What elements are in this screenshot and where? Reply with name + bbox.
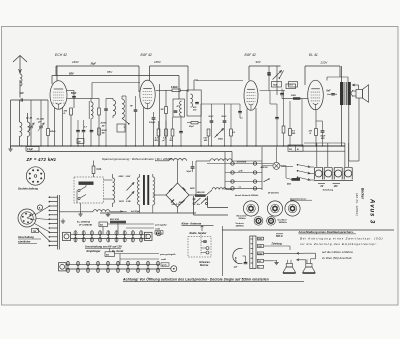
component box 0.1uF (26, 147, 39, 152)
svg-text:ECH 42: ECH 42 (55, 53, 67, 57)
wire box to strip1 (98, 221, 100, 223)
resistor 46 ohm (292, 178, 301, 181)
svg-text:kHz: kHz (193, 110, 197, 112)
svg-text:Empfänger: Empfänger (87, 249, 102, 253)
resistor 20k (47, 129, 50, 136)
capacitor 0.1uF right (275, 117, 279, 118)
fuse 0.8A (92, 166, 95, 174)
svg-text:6.8kΩ: 6.8kΩ (171, 86, 178, 89)
svg-text:Sockelschaltung: Sockelschaltung (18, 188, 38, 191)
resistor left EL41 (289, 129, 292, 136)
svg-text:0.1µF: 0.1µF (27, 149, 34, 151)
resistor 0.47M (207, 129, 210, 136)
volume pot upper 0.5M (276, 66, 278, 95)
wire secondary to bridge (153, 194, 166, 196)
svg-text:2: 2 (64, 103, 65, 105)
svg-text:1µF: 1µF (234, 266, 238, 268)
svg-text:1M: 1M (78, 142, 81, 144)
wire stage1 to stage2 grid (92, 82, 140, 84)
svg-text:ist die Zuleitung des Empfänge: ist die Zuleitung des Empfängerlautspr. (300, 242, 378, 246)
svg-text:grün: grün (162, 264, 167, 267)
svg-text:B+ Gerät: B+ Gerät (112, 249, 123, 253)
svg-text:weiß: weiß (155, 228, 161, 230)
wire antenna to input (11, 99, 49, 101)
separator line speaker block (222, 229, 394, 231)
svg-text:5Ω: 5Ω (289, 149, 292, 151)
capacitor on riser (267, 72, 271, 73)
jack socket arc (233, 249, 240, 264)
svg-text:25V: 25V (320, 138, 325, 140)
output transformer (340, 82, 343, 105)
IF transformer 1 coil (91, 102, 93, 119)
grid cap stage3 (238, 111, 242, 112)
lamp arrows right (297, 165, 310, 168)
wire screen EL41 (301, 99, 303, 147)
svg-text:0.8A: 0.8A (97, 169, 102, 171)
heater coil (206, 190, 213, 196)
socket capacitor (203, 240, 207, 241)
switch small circle A (37, 205, 42, 210)
resistor 6 ohm box (99, 222, 108, 227)
svg-text:1M: 1M (161, 109, 164, 111)
chassis bus (11, 145, 346, 147)
svg-text:sämtlicher: sämtlicher (18, 241, 32, 244)
box wave switch (117, 124, 125, 132)
box TA (272, 82, 282, 88)
riser tube1 anode (56, 66, 58, 81)
svg-text:Oszillator: Oszillator (278, 218, 288, 221)
wire socket column vertical a (193, 196, 195, 215)
svg-text:6nF: 6nF (20, 92, 25, 95)
resistor right2 stage3 (282, 126, 285, 133)
trimmer Ratiomitte (243, 201, 258, 216)
svg-text:10a: 10a (197, 204, 200, 206)
svg-text:EL 41: EL 41 (309, 53, 318, 57)
switch contact stage2 (122, 118, 129, 123)
svg-text:ANTENNE: ANTENNE (236, 162, 247, 164)
socket dashed box (188, 237, 211, 258)
capacitor 25pF stage2 (179, 131, 183, 132)
resistor right stage3 (230, 129, 233, 136)
strip1 screw right (156, 231, 161, 236)
svg-text:240V: 240V (71, 60, 80, 64)
svg-text:Umschaltung: Umschaltung (18, 236, 34, 239)
socket circles (206, 247, 209, 250)
svg-text:1400kHz: 1400kHz (279, 221, 288, 224)
svg-text:220V: 220V (118, 176, 125, 178)
svg-text:ZF 472 kHz: ZF 472 kHz (267, 192, 280, 195)
svg-text:15..43: 15..43 (26, 117, 33, 120)
trimmer mid (267, 201, 282, 216)
label gruen 1 (155, 231, 163, 234)
electrolytic 100uF (152, 117, 156, 118)
svg-text:TAS: TAS (273, 85, 278, 87)
speaker transformer tall (250, 236, 256, 269)
svg-text:prim (gelb): prim (gelb) (154, 224, 167, 226)
svg-text:6V: 6V (321, 186, 324, 188)
lamp chain bottom wire (314, 180, 353, 182)
svg-text:245V: 245V (189, 187, 195, 190)
wire socket column horizontals (194, 214, 229, 216)
mains dashed box (74, 177, 104, 203)
svg-text:Zuleitung: Zuleitung (271, 243, 283, 246)
filter coil B+ (93, 210, 110, 212)
cathode elco 50uF (321, 130, 325, 131)
tube socket diagram (26, 167, 44, 185)
speaker arrow (353, 84, 359, 86)
selector arrows (127, 183, 135, 191)
svg-text:550kHz: 550kHz (239, 218, 247, 220)
svg-text:grün: grün (156, 231, 161, 234)
svg-text:20kHz: 20kHz (100, 123, 107, 125)
svg-text:220V: 220V (320, 60, 329, 64)
oscillator coil 2 (122, 99, 124, 118)
wire lamp right (280, 165, 286, 167)
trimmer right (285, 201, 300, 216)
pot contact second (279, 71, 284, 80)
tap boxes (257, 237, 263, 240)
svg-text:Schaltung: Schaltung (323, 188, 334, 191)
wire left down (10, 100, 12, 148)
terminal strip 2 (66, 264, 160, 266)
svg-text:prim-grün/gelb: prim-grün/gelb (159, 254, 176, 256)
component box stage1 (77, 139, 84, 144)
svg-text:EL41: EL41 (234, 257, 237, 262)
bus lower line (27, 151, 232, 153)
svg-text:4Ω/0,1A: 4Ω/0,1A (260, 166, 269, 169)
svg-text:1MΩ: 1MΩ (291, 95, 296, 97)
svg-text:180V: 180V (154, 60, 162, 64)
box under bus stage4 (288, 145, 303, 151)
dial lamps chain (314, 168, 316, 180)
input transformer coils (20, 122, 22, 136)
switch small box (32, 229, 39, 233)
band switch vertical feeds (224, 152, 226, 190)
band row rot (225, 187, 262, 189)
choke Siebdrossel 1 (169, 159, 187, 161)
svg-text:Vorkreis: Vorkreis (236, 222, 245, 225)
svg-text:EAF 42: EAF 42 (141, 53, 152, 57)
mains transformer secondary (153, 177, 155, 205)
socket dashed wire (200, 235, 202, 256)
bridge output wires (177, 161, 179, 183)
wire grid top (67, 90, 74, 92)
svg-text:2x0.05µF: 2x0.05µF (130, 211, 141, 213)
bridge rectifier 251 D 10 (166, 183, 189, 207)
svg-text:1MΩ: 1MΩ (218, 139, 223, 141)
ground speaker block (276, 260, 278, 263)
svg-text:Umschaltung von 6V auf 12V: Umschaltung von 6V auf 12V (85, 245, 122, 249)
svg-text:6Ω: 6Ω (100, 225, 103, 227)
lines switch to comb (36, 206, 50, 215)
svg-text:6Ω: 6Ω (106, 255, 109, 257)
tap wires (264, 245, 290, 247)
transformer tapped primary (113, 178, 115, 203)
wires stage3 right (260, 90, 286, 92)
svg-text:Becker: Becker (361, 188, 365, 200)
antenna (13, 56, 27, 63)
rotary switch diagram (18, 209, 36, 227)
IFT3 box (187, 90, 201, 116)
dial lamp row wires (310, 166, 314, 168)
trimmer cap right (134, 109, 138, 110)
box right of TA (289, 82, 298, 88)
band row contact (225, 181, 262, 183)
svg-text:1400kHz: 1400kHz (236, 225, 245, 228)
resistor box strip2 (105, 252, 115, 257)
svg-text:Apparatemasse: Apparatemasse (289, 197, 307, 200)
svg-text:20pF: 20pF (188, 126, 195, 128)
speaker connect arrows (297, 252, 305, 254)
svg-text:100µF: 100µF (149, 122, 156, 124)
svg-text:Radio- Sender: Radio- Sender (190, 232, 208, 235)
strip2 screw right (171, 266, 177, 272)
svg-text:(Ab Nr. 12861): (Ab Nr. 12861) (355, 193, 359, 216)
speaker wire down (358, 98, 360, 161)
choke to comb line (59, 211, 93, 213)
wire transformer bottom link (349, 160, 359, 162)
strip1 wires to labels (108, 223, 155, 225)
svg-text:rot: rot (239, 186, 242, 189)
ground B+ (80, 203, 82, 213)
band row gelb (225, 172, 262, 174)
resistors bottom stage2 (157, 129, 160, 136)
svg-text:ZF = 472 kHz: ZF = 472 kHz (26, 157, 57, 162)
svg-text:Antennen-: Antennen- (198, 261, 211, 264)
trimmer cap IFT1 (98, 108, 101, 115)
power bottom bus (100, 212, 196, 214)
svg-text:B+ 12V(6V)A: B+ 12V(6V)A (77, 221, 90, 223)
wire pot riser (268, 66, 270, 91)
electrolytic 50uF psu (191, 166, 195, 167)
padder caps stage1 (76, 130, 80, 131)
svg-text:46Ω: 46Ω (286, 182, 291, 185)
speaker bottom B (306, 263, 312, 267)
strip1 end box (145, 232, 153, 240)
svg-text:EAF 42: EAF 42 (245, 53, 256, 57)
svg-text:MΩ: MΩ (204, 140, 208, 142)
capacitor input EL41 (280, 93, 284, 94)
svg-text:Klein- Antenne: Klein- Antenne (182, 221, 202, 225)
ground strip1 (62, 219, 64, 222)
mains transformer core (143, 175, 145, 205)
svg-text:3: 3 (53, 103, 54, 105)
trimmer small b (267, 216, 276, 225)
svg-text:Ω: Ω (63, 113, 66, 115)
interference filter (79, 182, 94, 185)
oscillator coil stage2 (113, 100, 116, 116)
dial lamp left (273, 162, 280, 169)
svg-text:8nF: 8nF (327, 91, 332, 93)
svg-text:Achtung! Vor Öffnung aufsetzen: Achtung! Vor Öffnung aufsetzen des Lauts… (122, 278, 269, 282)
svg-text:MΩ: MΩ (292, 133, 296, 135)
svg-text:15Ω: 15Ω (258, 253, 262, 255)
svg-text:Ω: Ω (309, 133, 312, 135)
antenna coil L1 (20, 74, 22, 86)
trimmer small a (254, 216, 263, 225)
switch comb strip (57, 195, 59, 250)
mains transformer primary (138, 177, 140, 205)
svg-text:30pF: 30pF (91, 64, 97, 66)
cathode resistor 170ohm (315, 129, 318, 136)
wire drops right (316, 143, 318, 167)
svg-text:Spannungsmessung : Röhrenvoltm: Spannungsmessung : Röhrenvoltmeter ( Ri … (102, 157, 172, 161)
terminal strip 1 (71, 233, 151, 235)
svg-text:MΩ: MΩ (268, 75, 272, 77)
svg-text:MΩ: MΩ (155, 140, 159, 142)
wire screen stage2 (159, 84, 161, 146)
box coupling upper (286, 84, 296, 89)
antenna glyph small (201, 227, 203, 232)
svg-text:52..542: 52..542 (37, 118, 45, 121)
svg-text:Ratiomitte: Ratiomitte (237, 215, 248, 218)
band row Antenne (207, 163, 273, 165)
svg-text:61Ω 10W: 61Ω 10W (110, 219, 120, 221)
potentiometer 1M volume (215, 129, 224, 138)
svg-text:Bei Anbringung eines Zweitlaut: Bei Anbringung eines Zweitlautspr. (5Ω) (300, 236, 383, 240)
svg-text:Anschließung eines Zweitlautsp: Anschließung eines Zweitlautsprechers. (298, 230, 354, 234)
svg-text:50µF: 50µF (187, 171, 193, 173)
transformer bottom stubs (139, 207, 141, 213)
svg-text:Buchse: Buchse (200, 265, 209, 267)
mains switch contacts (78, 189, 80, 191)
choke Siebdrossel 2 (196, 160, 210, 162)
svg-text:Anode Netzteils 500kHz: Anode Netzteils 500kHz (234, 194, 259, 197)
resistor 300 ohm (70, 108, 73, 115)
svg-text:85V: 85V (69, 72, 74, 76)
svg-text:500 Ω: 500 Ω (276, 235, 283, 238)
svg-text:auf die mittlere Lötfahne: auf die mittlere Lötfahne (322, 250, 353, 254)
ground left input (10, 147, 12, 150)
divider right socket column (221, 226, 223, 276)
svg-text:110V: 110V (119, 201, 124, 203)
resistor 1M stage2 (165, 107, 168, 114)
svg-text:12V: 12V (334, 186, 339, 188)
svg-text:pF: pF (37, 121, 41, 123)
IF transformer 2 box (173, 99, 184, 117)
svg-text:50Ω: 50Ω (258, 239, 262, 241)
svg-text:Avus 3: Avus 3 (369, 198, 375, 224)
resistor 20k 1W (98, 128, 101, 135)
speaker bottom A (286, 263, 292, 267)
wire socket column vertical b (207, 196, 209, 208)
svg-text:30Ω: 30Ω (258, 246, 262, 248)
resistor 20pF under IFT3 (191, 122, 198, 124)
svg-text:zu löten (5Ω) Anschluß.: zu löten (5Ω) Anschluß. (321, 256, 352, 260)
bus right segment (304, 142, 345, 144)
svg-text:251 D 10: 251 D 10 (171, 204, 182, 206)
svg-text:weiß: weiß (161, 259, 167, 261)
svg-text:ZF 12V(6V)B: ZF 12V(6V)B (78, 224, 92, 226)
label gruen 2 (161, 263, 169, 266)
svg-text:0.1: 0.1 (233, 132, 236, 134)
ballast resistor (110, 221, 126, 224)
strip2 wires to labels (109, 248, 111, 252)
svg-text:14Ω,1W: 14Ω,1W (197, 191, 206, 194)
speaker (356, 90, 362, 99)
